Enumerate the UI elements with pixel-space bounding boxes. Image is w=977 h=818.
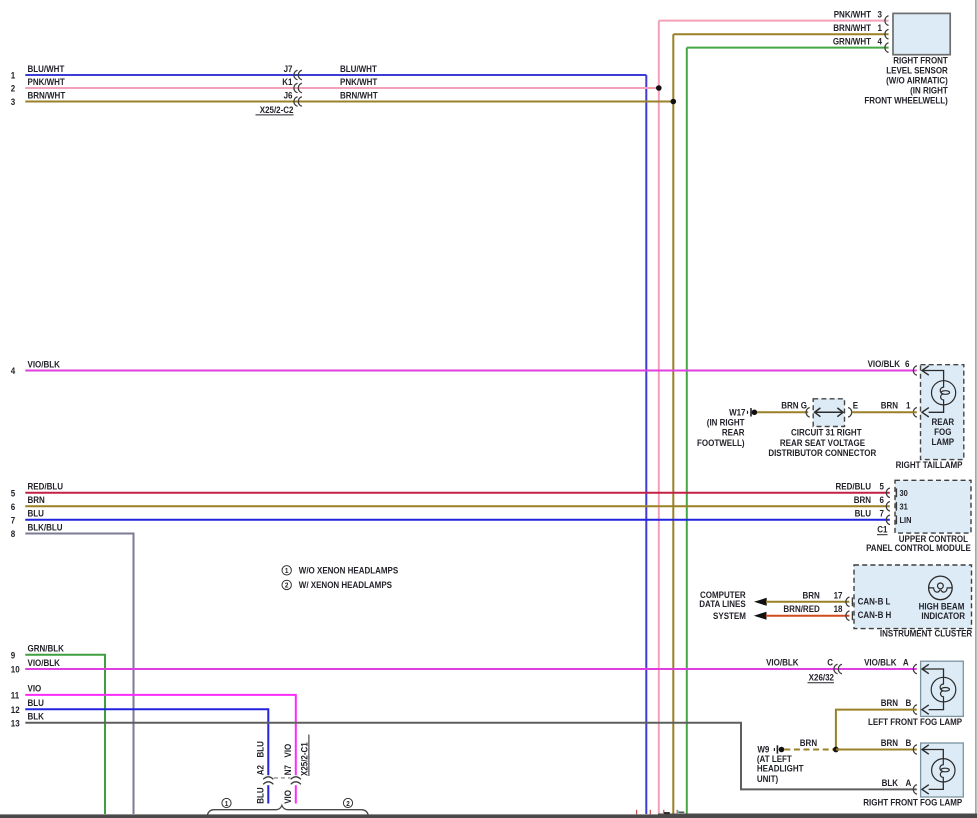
svg-text:A: A (906, 778, 912, 789)
svg-text:VIO: VIO (283, 790, 294, 804)
svg-text:RIGHT FRONT: RIGHT FRONT (893, 55, 948, 66)
wire BRN junction to right fog pin B (836, 738, 917, 750)
svg-text:INDICATOR: INDICATOR (921, 611, 965, 622)
svg-text:X25/2-C2: X25/2-C2 (260, 104, 294, 115)
wire 13 BLK (11, 711, 917, 789)
svg-text:1: 1 (878, 23, 883, 34)
svg-text:X26/32: X26/32 (809, 672, 835, 683)
svg-text:BRN/WHT: BRN/WHT (833, 23, 871, 34)
right front fog lamp box (863, 743, 963, 808)
svg-text:FOG: FOG (934, 427, 952, 438)
wire BRN to cluster pin 17 (766, 590, 852, 607)
connector X25/2-C2 (256, 63, 379, 115)
arrow computer data lines BRN (754, 598, 767, 606)
svg-text:B: B (906, 738, 912, 749)
wire 10 VIO/BLK left segment (11, 657, 917, 675)
high beam indicator (919, 576, 965, 621)
svg-text:1: 1 (225, 801, 229, 808)
svg-text:RED/BLU: RED/BLU (836, 481, 871, 492)
svg-text:11: 11 (11, 690, 20, 701)
svg-text:BLU: BLU (28, 508, 44, 519)
page continuation ticks (637, 810, 685, 815)
cluster internal labels (858, 596, 892, 620)
wire BRN W9 dashed (784, 737, 836, 749)
svg-text:8: 8 (11, 529, 16, 540)
svg-text:BRN: BRN (881, 738, 898, 749)
svg-text:REAR: REAR (722, 427, 745, 438)
svg-text:INSTRUMENT CLUSTER: INSTRUMENT CLUSTER (880, 628, 972, 639)
brace legend 2 (343, 798, 352, 808)
svg-text:SYSTEM: SYSTEM (713, 611, 746, 622)
svg-text:LEFT FRONT FOG LAMP: LEFT FRONT FOG LAMP (868, 716, 962, 727)
svg-text:FOOTWELL): FOOTWELL) (697, 437, 745, 448)
svg-text:6: 6 (880, 494, 885, 505)
svg-text:BLU: BLU (255, 741, 266, 757)
svg-text:7: 7 (11, 515, 16, 526)
svg-text:BRN/WHT: BRN/WHT (28, 90, 66, 101)
svg-text:J7: J7 (284, 63, 293, 74)
svg-text:1: 1 (11, 70, 16, 81)
wire BLU below connector (255, 785, 268, 804)
svg-text:DISTRIBUTOR CONNECTOR: DISTRIBUTOR CONNECTOR (768, 448, 876, 459)
svg-text:RIGHT TAILLAMP: RIGHT TAILLAMP (896, 459, 963, 470)
svg-text:W/ XENON HEADLAMPS: W/ XENON HEADLAMPS (299, 580, 392, 591)
wire BRN/WHT to sensor pin 1 (673, 23, 888, 39)
svg-text:18: 18 (834, 604, 843, 615)
wire 12 BLU (11, 698, 269, 776)
svg-text:6: 6 (905, 359, 910, 370)
wire 7 BLU (11, 508, 890, 526)
svg-text:BRN: BRN (28, 495, 45, 506)
instrument cluster dashed box (854, 565, 972, 639)
svg-text:4: 4 (878, 36, 883, 47)
junction brown trunk / wire 3 (671, 99, 677, 105)
svg-text:BLU: BLU (255, 787, 266, 803)
svg-text:5: 5 (11, 488, 16, 499)
brace legend 1 (222, 798, 231, 808)
svg-text:RIGHT FRONT FOG LAMP: RIGHT FRONT FOG LAMP (863, 797, 962, 808)
junction pink trunk / wire 2 (656, 85, 662, 91)
svg-text:1: 1 (285, 568, 289, 575)
svg-text:BLU/WHT: BLU/WHT (28, 63, 66, 74)
xenon option brace (207, 805, 368, 815)
svg-text:BRN: BRN (781, 400, 798, 411)
wire 3 BRN/WHT (11, 90, 674, 107)
svg-text:CAN-B H: CAN-B H (858, 609, 892, 620)
junction BRN fog lamps (833, 747, 839, 753)
svg-text:BLU: BLU (855, 508, 871, 519)
svg-text:HEADLIGHT: HEADLIGHT (757, 763, 804, 774)
svg-text:BLK/BLU: BLK/BLU (28, 522, 63, 533)
wire 2 PNK/WHT (11, 76, 659, 93)
wire GRN/WHT to sensor pin 4 (687, 36, 889, 52)
svg-text:BRN: BRN (881, 400, 898, 411)
svg-text:BRN: BRN (854, 494, 871, 505)
svg-text:PNK/WHT: PNK/WHT (834, 9, 872, 20)
svg-text:K1: K1 (282, 76, 292, 87)
ground W9 (757, 744, 804, 784)
left front fog lamp box (868, 661, 963, 727)
wire 6 BRN (11, 494, 890, 512)
svg-text:VIO/BLK: VIO/BLK (28, 359, 61, 370)
svg-text:CIRCUIT 31 RIGHT: CIRCUIT 31 RIGHT (791, 427, 862, 438)
arrow system BRN/RED (754, 612, 767, 620)
svg-text:3: 3 (878, 9, 883, 20)
svg-text:BRN/WHT: BRN/WHT (340, 90, 378, 101)
svg-text:X25/2-C1: X25/2-C1 (299, 742, 310, 776)
svg-text:W17: W17 (729, 407, 746, 418)
right taillamp dashed box (896, 365, 964, 470)
svg-text:13: 13 (11, 718, 20, 729)
computer data lines system labels (699, 589, 746, 621)
wire 9 GRN/BLK (11, 643, 105, 814)
svg-text:2: 2 (11, 83, 16, 94)
svg-text:PNK/WHT: PNK/WHT (28, 76, 66, 87)
svg-text:7: 7 (880, 508, 885, 519)
svg-text:4: 4 (11, 366, 16, 377)
svg-text:C: C (827, 657, 833, 668)
svg-text:VIO/BLK: VIO/BLK (868, 359, 901, 370)
wire 5 RED/BLU (11, 481, 890, 499)
svg-text:BLU: BLU (28, 698, 44, 709)
svg-text:12: 12 (11, 704, 20, 715)
svg-text:FRONT WHEELWELL): FRONT WHEELWELL) (864, 95, 948, 106)
svg-text:BLU/WHT: BLU/WHT (340, 63, 378, 74)
svg-text:J6: J6 (284, 90, 293, 101)
svg-text:A2: A2 (255, 765, 266, 775)
svg-text:10: 10 (11, 664, 20, 675)
svg-text:2: 2 (285, 582, 289, 589)
wire GRN/WHT vertical trunk (686, 48, 688, 814)
svg-text:BRN/RED: BRN/RED (783, 604, 819, 615)
wire BRN/WHT vertical trunk (672, 34, 674, 814)
svg-text:LAMP: LAMP (931, 437, 954, 448)
wire PNK/WHT to sensor pin 3 (659, 9, 889, 25)
svg-text:CAN-B L: CAN-B L (858, 596, 891, 607)
wire BRN/RED to cluster pin 18 (766, 604, 853, 621)
wire 8 BLK/BLU (11, 522, 134, 814)
wire 1 BLU/WHT (11, 63, 647, 80)
svg-text:VIO: VIO (283, 743, 294, 757)
wire BRN W17 to connector G (757, 400, 808, 412)
svg-text:W/O XENON HEADLAMPS: W/O XENON HEADLAMPS (299, 565, 399, 576)
right front level sensor box (864, 13, 950, 105)
svg-text:RED/BLU: RED/BLU (28, 481, 63, 492)
svg-text:REAR: REAR (931, 416, 954, 427)
page right border (975, 0, 977, 814)
svg-text:17: 17 (834, 590, 843, 601)
ground W17 (697, 407, 757, 448)
svg-text:3: 3 (11, 97, 16, 108)
svg-text:BLK: BLK (882, 778, 899, 789)
svg-text:PNK/WHT: PNK/WHT (340, 76, 378, 87)
svg-text:BLK: BLK (28, 711, 45, 722)
svg-text:C1: C1 (877, 524, 887, 535)
svg-text:UNIT): UNIT) (757, 773, 778, 784)
svg-text:VIO/BLK: VIO/BLK (766, 657, 799, 668)
svg-text:(IN RIGHT: (IN RIGHT (910, 85, 948, 96)
svg-text:9: 9 (11, 650, 16, 661)
svg-text:GRN/WHT: GRN/WHT (833, 36, 872, 47)
svg-text:6: 6 (11, 502, 16, 513)
page bottom bar (0, 814, 977, 818)
svg-text:VIO/BLK: VIO/BLK (864, 657, 897, 668)
svg-text:REAR SEAT VOLTAGE: REAR SEAT VOLTAGE (780, 437, 866, 448)
circuit 31 distributor connector (768, 399, 876, 458)
svg-text:GRN/BLK: GRN/BLK (28, 643, 65, 654)
wire PNK/WHT vertical trunk (658, 21, 660, 814)
svg-text:5: 5 (880, 481, 885, 492)
wire VIO below connector (283, 785, 296, 804)
svg-text:LIN: LIN (900, 516, 912, 526)
svg-text:PANEL CONTROL MODULE: PANEL CONTROL MODULE (866, 543, 971, 554)
svg-text:N7: N7 (283, 765, 294, 775)
svg-text:BRN: BRN (881, 698, 898, 709)
wire BLU/WHT vertical trunk (645, 75, 647, 814)
svg-text:1: 1 (906, 400, 911, 411)
rear fog lamp (913, 366, 955, 448)
wire BRN connector E to rear fog pin 1 (852, 400, 917, 412)
svg-text:30: 30 (900, 489, 909, 499)
svg-text:VIO/BLK: VIO/BLK (28, 657, 61, 668)
legend w/ xenon headlamps (282, 580, 392, 591)
wire 11 VIO (11, 683, 296, 775)
wire 4 VIO/BLK (11, 359, 917, 377)
svg-text:(IN RIGHT: (IN RIGHT (707, 417, 745, 428)
svg-text:B: B (906, 698, 912, 709)
connector X26/32 (808, 664, 842, 683)
svg-text:DATA LINES: DATA LINES (699, 599, 746, 610)
connector X25/2-C1 (255, 735, 309, 785)
wire 10 VIO/BLK right segment (864, 657, 909, 668)
svg-text:BRN: BRN (802, 590, 819, 601)
svg-text:E: E (853, 400, 859, 411)
svg-text:A: A (903, 657, 909, 668)
svg-text:VIO: VIO (28, 683, 42, 694)
svg-text:BRN: BRN (800, 737, 817, 748)
upper control panel control module box (866, 480, 971, 553)
wire BRN left fog pin B to junction (836, 698, 917, 750)
legend w/o xenon headlamps (282, 565, 399, 576)
svg-text:2: 2 (346, 801, 350, 808)
svg-text:31: 31 (900, 502, 909, 512)
